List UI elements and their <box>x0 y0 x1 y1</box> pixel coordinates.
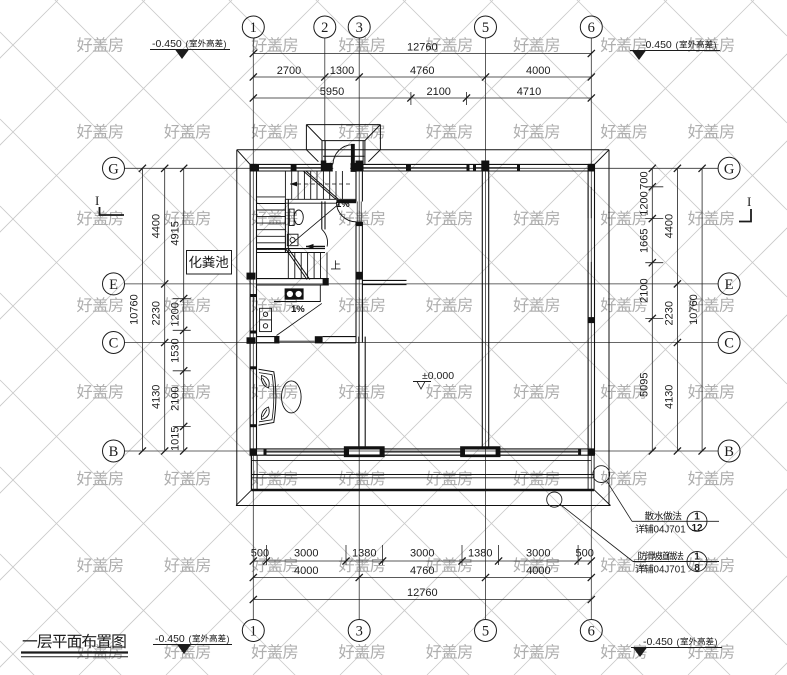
note 2: 防滑坡道做法 详辅04J701 with detail bubble 1/8 <box>638 551 683 560</box>
svg-text:): ) <box>715 637 718 647</box>
svg-text:1530: 1530 <box>170 338 182 362</box>
svg-text:4130: 4130 <box>663 385 675 409</box>
svg-text:4400: 4400 <box>151 214 163 238</box>
svg-text:12760: 12760 <box>407 587 438 599</box>
pier frame at axis3 on B wall <box>345 448 383 456</box>
svg-text:4000: 4000 <box>294 565 318 577</box>
svg-text:1380: 1380 <box>352 548 376 560</box>
svg-text:8: 8 <box>694 563 700 574</box>
plant stand by left window <box>259 369 276 425</box>
svg-text:12: 12 <box>691 523 703 534</box>
svg-text:1: 1 <box>250 624 257 640</box>
interior wall axis 3 from C to B <box>359 337 365 449</box>
svg-text:4710: 4710 <box>517 86 541 98</box>
svg-text:1300: 1300 <box>330 65 354 77</box>
stair lower flight treads <box>288 253 327 279</box>
svg-text:2700: 2700 <box>277 65 301 77</box>
kitchen door threshold <box>279 340 314 342</box>
oval table <box>282 381 302 413</box>
bottom exterior wall <box>250 449 594 455</box>
svg-text:I: I <box>747 194 751 209</box>
svg-text:3000: 3000 <box>526 548 550 560</box>
svg-text:C: C <box>724 336 734 352</box>
svg-text:1: 1 <box>694 512 700 523</box>
svg-text:E: E <box>725 277 734 293</box>
svg-text:6: 6 <box>588 624 595 640</box>
svg-text:04J701: 04J701 <box>654 525 686 536</box>
bottom wall window W7 (3000) <box>380 449 465 455</box>
axis bubbles <box>103 16 741 642</box>
column at axis2/G <box>321 161 327 172</box>
kitchen bottom wall on axis C <box>257 336 357 343</box>
terrace front thick edge <box>251 489 594 492</box>
detail reference circle on apron <box>547 492 562 507</box>
right wall window W13 (2100) <box>588 262 594 317</box>
svg-text:04J701: 04J701 <box>654 565 686 576</box>
svg-text:500: 500 <box>251 548 269 560</box>
svg-text:): ) <box>224 39 227 49</box>
top wall window W5 <box>473 164 520 171</box>
svg-text:5950: 5950 <box>320 86 344 98</box>
svg-text:1380: 1380 <box>468 548 492 560</box>
svg-text:G: G <box>108 161 119 177</box>
top wall window W1 <box>256 164 294 171</box>
bathroom east partition <box>322 201 325 229</box>
stair room door D2 leaf and arc <box>336 200 356 222</box>
stair direction line with arrow <box>290 182 352 187</box>
axis grid lines <box>125 38 719 620</box>
svg-text:4000: 4000 <box>526 65 550 77</box>
top wall window W4 (2100) <box>408 164 470 171</box>
door frame in axis 3 opening <box>357 202 361 223</box>
svg-text:1: 1 <box>694 552 700 563</box>
bottom wall window W8 (3000) <box>496 449 581 455</box>
column at axis3/G <box>356 161 364 172</box>
interior wall on axis 3 (north part) <box>356 171 363 343</box>
wall stub on axis E east of axis 3 <box>362 280 406 284</box>
svg-text:4000: 4000 <box>526 565 550 577</box>
stair break lines <box>286 171 339 280</box>
svg-text:-0.450: -0.450 <box>643 636 673 648</box>
svg-text:10760: 10760 <box>128 294 140 325</box>
svg-text:E: E <box>109 277 118 293</box>
svg-text:2230: 2230 <box>151 301 163 325</box>
svg-text:-0.450: -0.450 <box>152 38 182 50</box>
svg-text:4400: 4400 <box>663 214 675 238</box>
svg-text:2100: 2100 <box>170 386 182 410</box>
svg-text:700: 700 <box>638 171 650 189</box>
interior wall on axis 5 <box>482 171 488 449</box>
kitchen slope arrow 1% <box>277 303 322 335</box>
svg-text:1: 1 <box>250 20 257 36</box>
svg-text:1015: 1015 <box>170 426 182 450</box>
svg-text:I: I <box>95 193 99 208</box>
svg-text:1%: 1% <box>291 304 305 315</box>
svg-text:4760: 4760 <box>410 65 434 77</box>
svg-text:C: C <box>109 336 119 352</box>
bathroom south partition <box>257 249 326 253</box>
roof eave overhang outline <box>237 150 609 506</box>
bathroom slope arrow 1% <box>290 199 350 245</box>
svg-text:5: 5 <box>482 624 489 640</box>
svg-text:500: 500 <box>576 548 594 560</box>
top wall window W3 <box>361 164 410 171</box>
right dimension lines <box>142 54 702 600</box>
entry door D1 leaf and arc <box>333 144 355 165</box>
svg-text:1200: 1200 <box>170 302 182 326</box>
svg-text:B: B <box>109 444 119 460</box>
left exterior wall <box>250 164 256 455</box>
terrace step lines <box>251 455 594 490</box>
pier frame at axis5 on B wall <box>462 448 500 456</box>
column at axis5/G <box>481 161 489 172</box>
stair winder treads <box>257 197 286 250</box>
svg-text:4760: 4760 <box>410 565 434 577</box>
left wall column at E <box>247 273 256 280</box>
right exterior wall <box>588 164 594 455</box>
svg-text:±0.000: ±0.000 <box>422 370 454 382</box>
bathroom west partition <box>285 199 288 252</box>
svg-text:1665: 1665 <box>638 228 650 252</box>
kitchen counter edge <box>274 285 320 302</box>
leader line to note 1 <box>607 481 633 522</box>
svg-text:-0.450: -0.450 <box>155 633 185 645</box>
leader line to note 2 <box>560 504 633 561</box>
svg-text:5095: 5095 <box>638 372 650 396</box>
stair upper flight treads <box>285 171 356 203</box>
toilet <box>289 209 303 225</box>
kitchen stove <box>285 288 304 299</box>
right wall window W12 (1200) <box>588 187 594 218</box>
svg-text:): ) <box>227 634 230 644</box>
svg-text:3: 3 <box>356 624 363 640</box>
drawing title 一层平面布置图 <box>23 634 126 649</box>
svg-text:6: 6 <box>588 20 595 36</box>
svg-text:5: 5 <box>482 20 489 36</box>
dimension texts <box>128 42 700 600</box>
right wall jamb below W13 <box>588 317 595 323</box>
top exterior wall <box>250 164 594 171</box>
svg-text:2230: 2230 <box>663 301 675 325</box>
up label 上 at stairs <box>331 260 340 269</box>
kitchen top wall on axis E <box>257 278 329 285</box>
svg-text:(: ( <box>186 39 189 49</box>
svg-text:3: 3 <box>356 20 363 36</box>
watermark text 好盖房 grid <box>77 37 734 659</box>
entry jamb piers <box>323 163 357 172</box>
svg-text:G: G <box>724 161 735 177</box>
svg-text:2100: 2100 <box>426 86 450 98</box>
apron outline with mitered corners <box>236 490 611 506</box>
svg-text:2100: 2100 <box>638 278 650 302</box>
bathroom door D3 arc and leaf arrow <box>306 229 328 249</box>
left wall column at C <box>247 337 256 344</box>
svg-text:3000: 3000 <box>410 548 434 560</box>
svg-text:): ) <box>714 40 717 50</box>
top wall window W2 <box>294 164 325 171</box>
dimension ticks <box>139 50 706 603</box>
svg-text:-0.450: -0.450 <box>642 39 672 51</box>
left wall kitchen window W10 (1200) <box>250 294 256 334</box>
svg-text:3000: 3000 <box>294 548 318 560</box>
svg-text:(: ( <box>676 40 679 50</box>
svg-text:10760: 10760 <box>688 294 700 325</box>
detail reference circle on eave (right) <box>593 466 610 483</box>
septic tank label 化粪池 <box>187 251 232 275</box>
svg-text:(: ( <box>677 637 680 647</box>
svg-text:4130: 4130 <box>151 385 163 409</box>
left wall living room window W11 (2100) <box>250 366 256 427</box>
bathroom hand basin <box>287 234 298 246</box>
column on axis 3 above E junction <box>356 272 363 280</box>
canopy over entrance <box>306 125 380 165</box>
corner columns <box>250 164 595 456</box>
note 1: 散水做法 详辅04J701 with detail bubble 1/12 <box>645 511 682 520</box>
svg-text:2: 2 <box>321 20 328 36</box>
kitchen sink <box>260 308 272 331</box>
svg-text:1%: 1% <box>336 199 350 210</box>
svg-text:12760: 12760 <box>407 42 438 54</box>
svg-text:4915: 4915 <box>170 221 182 245</box>
svg-text:1200: 1200 <box>638 191 650 215</box>
bottom wall window W6 (3000) <box>264 449 350 455</box>
svg-text:(: ( <box>189 634 192 644</box>
svg-text:B: B <box>724 444 734 460</box>
